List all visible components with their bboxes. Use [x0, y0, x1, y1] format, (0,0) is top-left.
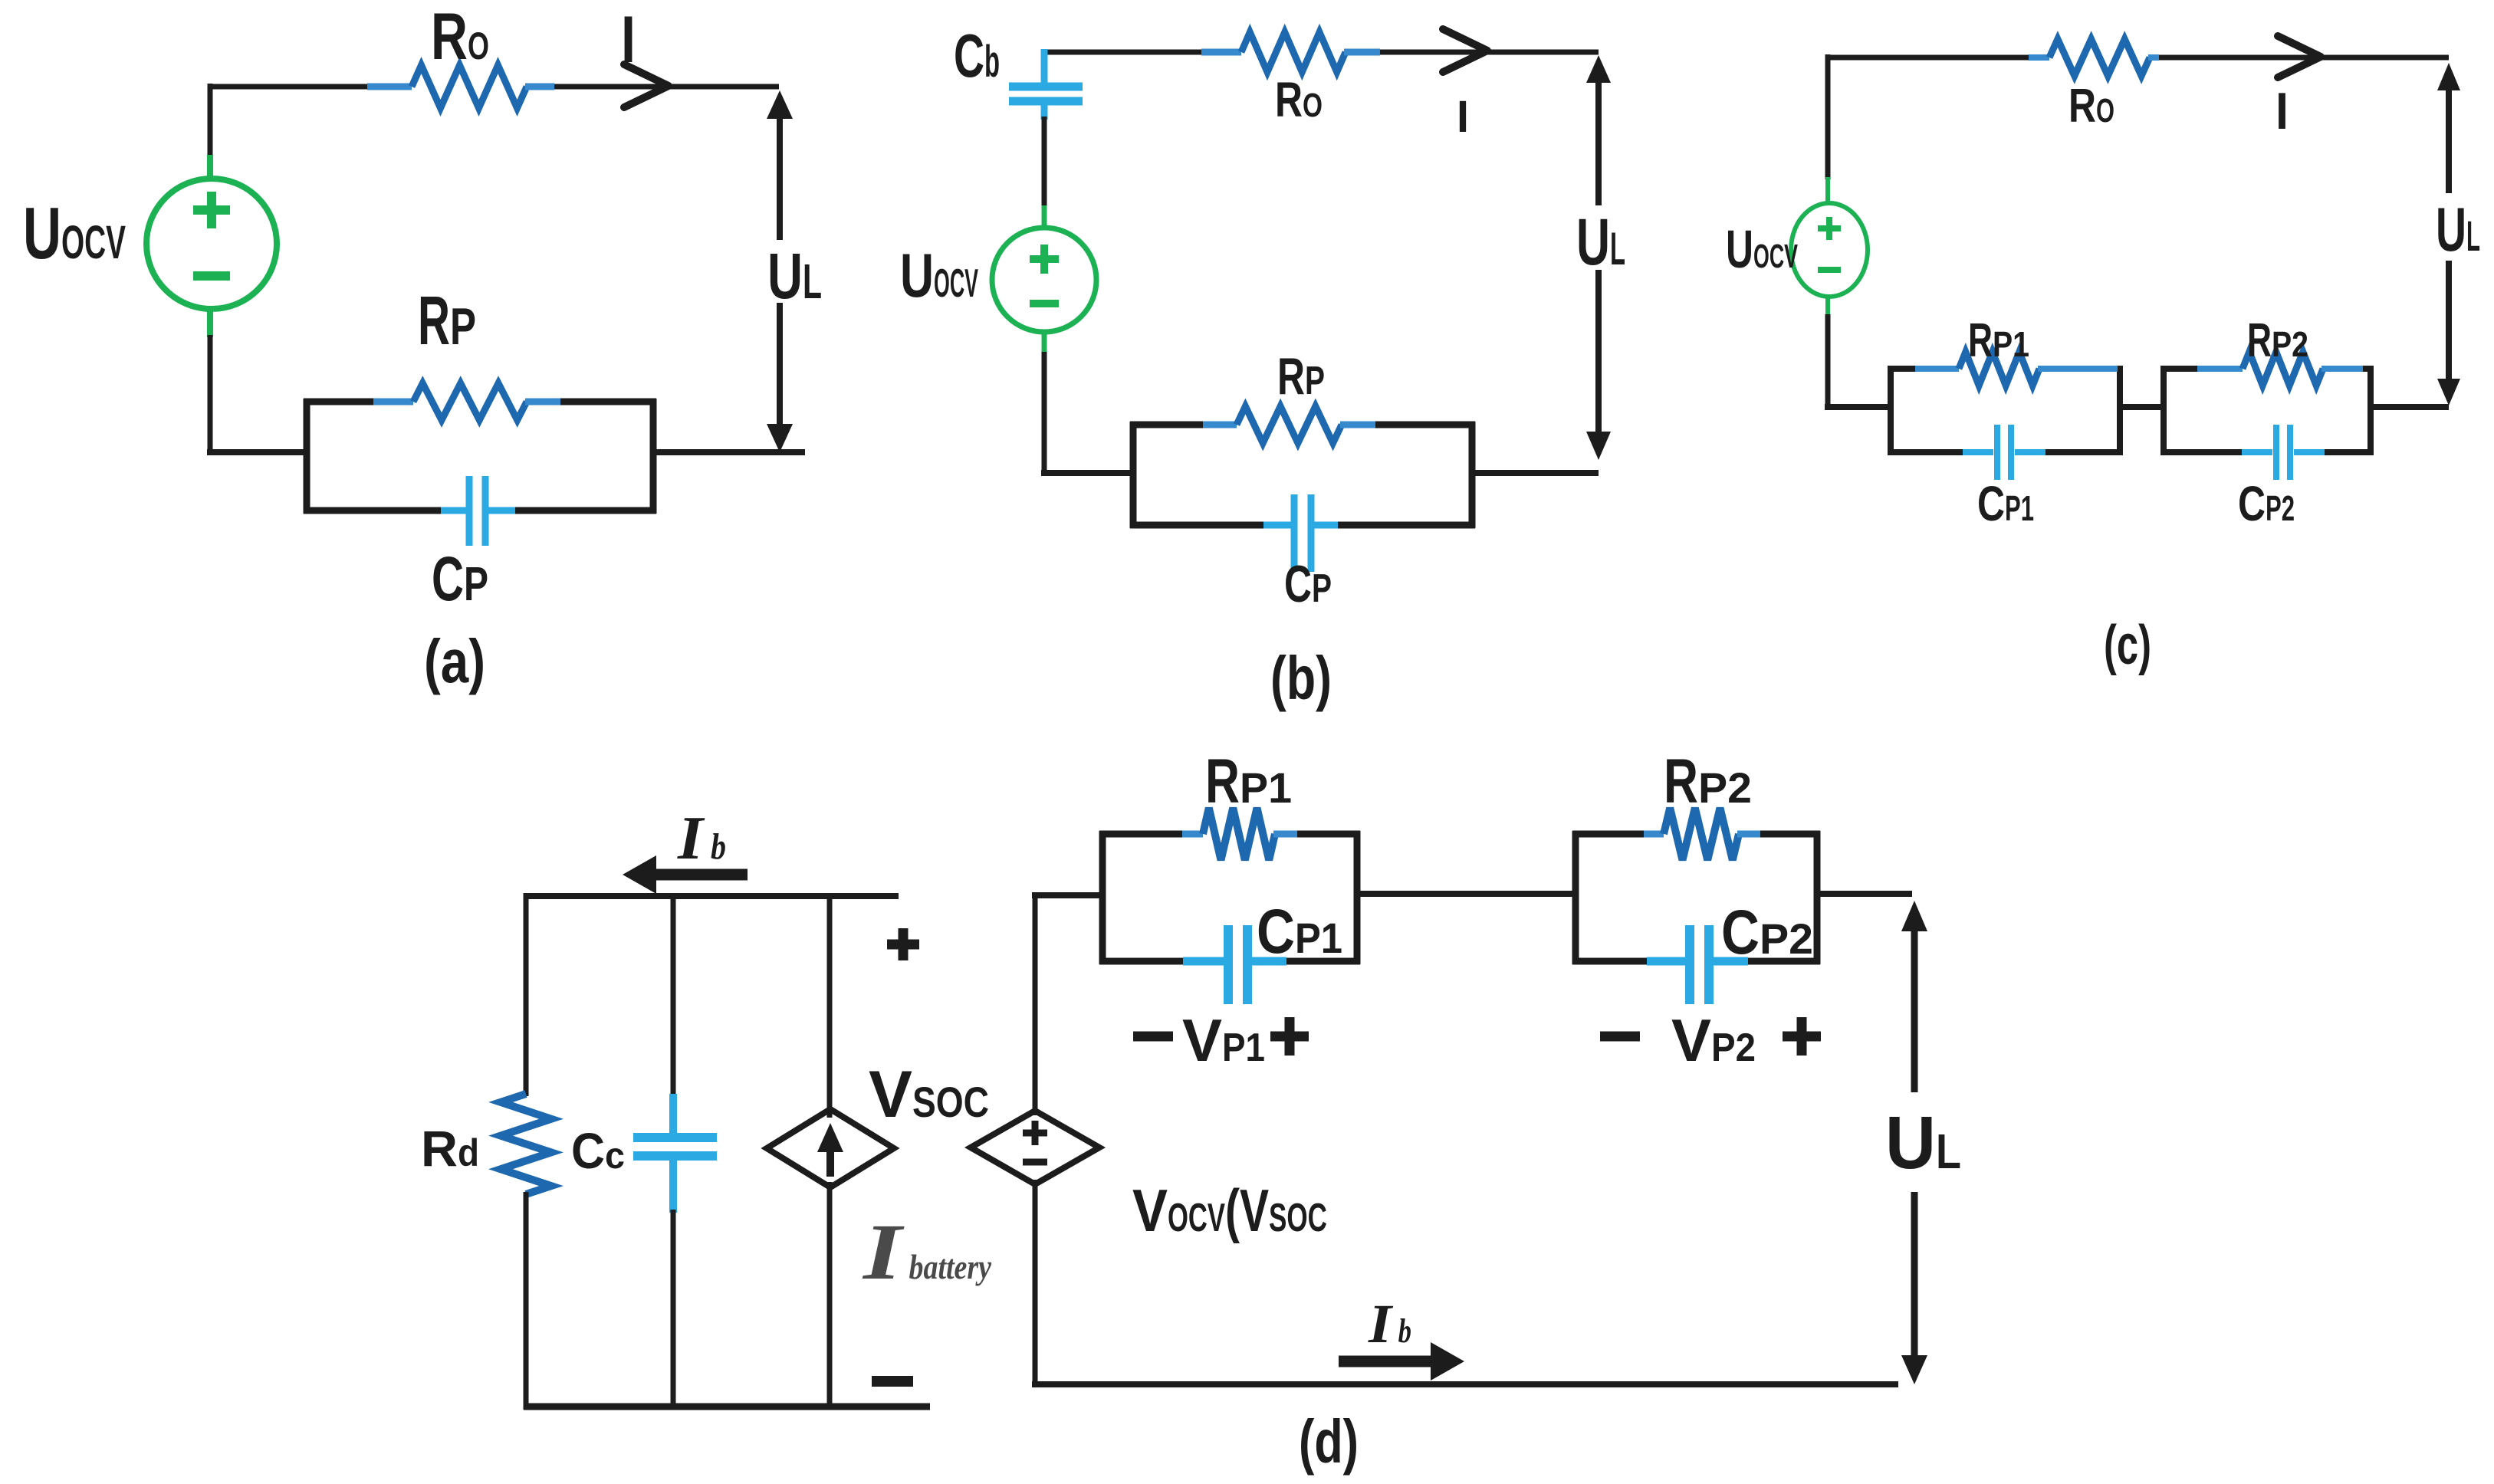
- current arrow I (c): [2278, 36, 2321, 77]
- measurement arrow UL (d): [1901, 901, 1927, 1384]
- label Rd (d): [421, 1120, 479, 1177]
- label Rp2 (d): [1664, 747, 1752, 816]
- capacitor Cp2 (d) on box2 bottom edge: [1647, 925, 1748, 1004]
- measurement arrow UL (b): [1586, 55, 1611, 460]
- svg-text:RP: RP: [1277, 347, 1325, 405]
- wire: (d) left block bottom rail: [524, 1404, 930, 1410]
- caption (b): [1270, 644, 1332, 712]
- label UL (d): [1885, 1101, 1961, 1184]
- svg-text:(d): (d): [1299, 1407, 1359, 1476]
- current arrow Ib (d, top left, pointing left): [623, 855, 748, 894]
- wire: (b) top wire: [1044, 50, 1599, 55]
- svg-text:RP1: RP1: [1205, 747, 1292, 816]
- svg-text:UOCV: UOCV: [1726, 219, 1798, 279]
- resistor Ro (b): [1201, 32, 1380, 72]
- wire: (a) top wire from source to right corner: [210, 84, 779, 90]
- capacitor Cp2 (c) on box2 bottom edge: [2242, 425, 2325, 480]
- measurement arrow UL (a): [767, 90, 793, 452]
- label Cp (a): [432, 544, 488, 614]
- svg-text:UOCV: UOCV: [900, 241, 978, 310]
- svg-text:RO: RO: [1275, 72, 1323, 127]
- label I (b): [1457, 92, 1469, 142]
- label Cp1 (c): [1977, 476, 2034, 531]
- label -Vp2+ (d): [1600, 1006, 1821, 1074]
- svg-text:I: I: [1457, 92, 1469, 142]
- label Cp1 (d): [1257, 897, 1342, 967]
- wire: (a) bottom wire from box to UL arrow: [650, 449, 805, 455]
- label Ib (d top): [677, 805, 726, 872]
- svg-text:I: I: [2275, 82, 2289, 140]
- label Cp2 (d): [1721, 898, 1813, 967]
- label Rp (b): [1277, 347, 1325, 405]
- label UL (b): [1576, 205, 1625, 279]
- voltage source Uocv (c): [1791, 177, 1868, 317]
- label Ro (c): [2068, 80, 2114, 133]
- label Vsoc (d): [869, 1058, 989, 1131]
- wire: (d) from source top to box1: [1032, 895, 1106, 1115]
- svg-text:CP2: CP2: [1721, 898, 1813, 967]
- voltage source Uocv (a): [146, 155, 277, 337]
- svg-text:CP1: CP1: [1257, 897, 1342, 967]
- svg-text:CP2: CP2: [2238, 476, 2295, 531]
- svg-text:I b: I b: [677, 805, 726, 872]
- label Cp (b): [1284, 555, 1332, 613]
- wire: (d) left block top rail: [526, 893, 899, 899]
- caption (c): [2104, 615, 2151, 676]
- svg-text:RP1: RP1: [1968, 314, 2029, 367]
- label Vocv(Vsoc (d): [1132, 1177, 1327, 1244]
- svg-text:RP2: RP2: [1664, 747, 1752, 816]
- resistor Ro (a): [367, 65, 554, 108]
- svg-text:VP1: VP1: [1182, 1006, 1265, 1074]
- voltage source Uocv (b): [992, 205, 1096, 354]
- label Cb (b): [954, 21, 1000, 90]
- RC box 1 (c): frame: [1888, 366, 2123, 455]
- label -Vp1+ (d): [1133, 1006, 1309, 1074]
- label Uocv (c): [1726, 219, 1798, 279]
- svg-text:UL: UL: [1885, 1101, 1961, 1184]
- resistor Rp1 (d) on box1 top edge: [1182, 808, 1297, 860]
- label I battery (d): [862, 1208, 992, 1296]
- RC box 2 (d): frame: [1572, 831, 1820, 964]
- svg-text:(b): (b): [1270, 644, 1332, 712]
- wire: (b) right bottom wire from box to UL arrow: [1469, 470, 1599, 476]
- svg-text:UL: UL: [767, 240, 822, 312]
- resistor Rp (b) on box top edge: [1203, 406, 1375, 443]
- svg-text:RO: RO: [2068, 80, 2114, 133]
- svg-text:UL: UL: [2436, 195, 2480, 264]
- svg-text:VOCV(VSOC: VOCV(VSOC: [1132, 1177, 1327, 1244]
- svg-text:I: I: [621, 3, 636, 77]
- label I (a): [621, 3, 636, 77]
- svg-text:RP2: RP2: [2247, 314, 2308, 367]
- capacitor Cb (b) on left vertical: [1009, 49, 1083, 120]
- svg-text:(c): (c): [2104, 615, 2151, 676]
- wire: (a) left vertical upper: [208, 84, 213, 157]
- svg-text:CP1: CP1: [1977, 476, 2034, 531]
- RC parallel box (b): frame: [1130, 422, 1475, 528]
- label + (d left block): [887, 928, 919, 960]
- label Cc (d): [571, 1122, 625, 1179]
- resistor Ro (c): [2029, 39, 2159, 76]
- RC box 1 (d): frame: [1099, 831, 1360, 964]
- svg-text:VP2: VP2: [1671, 1006, 1756, 1074]
- resistor Rd (d): left branch: [501, 893, 551, 1410]
- svg-text:(a): (a): [424, 627, 485, 695]
- capacitor Cp1 (c) on box1 bottom edge: [1963, 425, 2045, 480]
- label Ib (d bottom): [1368, 1293, 1411, 1354]
- resistor Rp1 (c) on box1 top edge: [1915, 352, 2118, 386]
- svg-text:VSOC: VSOC: [869, 1058, 989, 1131]
- svg-text:RP: RP: [418, 283, 476, 360]
- label Rp1 (d): [1205, 747, 1292, 816]
- wire: (d) source bottom leg and bottom rail: [1032, 1180, 1898, 1387]
- label UL (a): [767, 240, 822, 312]
- label Ro (b): [1275, 72, 1323, 127]
- label Ro (a): [431, 0, 489, 74]
- capacitor Cp (b) on box bottom edge: [1263, 494, 1338, 572]
- svg-text:UOCV: UOCV: [23, 192, 126, 274]
- capacitor Cc (d): middle branch: [633, 893, 717, 1410]
- label Cp2 (c): [2238, 476, 2295, 531]
- capacitor Cp (a) on box bottom edge: [441, 476, 515, 546]
- resistor Rp2 (d) on box2 top edge: [1644, 808, 1760, 860]
- svg-text:CP: CP: [1284, 555, 1332, 613]
- wire: (b) left vertical above source: [1042, 117, 1047, 207]
- svg-text:CP: CP: [432, 544, 488, 614]
- label Rp (a): [418, 283, 476, 360]
- wire: (b) left vertical lower + bottom wire to RC box: [1041, 352, 1136, 476]
- label I (c): [2275, 82, 2289, 140]
- wire: (d) box2 to UL arrow: [1814, 891, 1912, 897]
- svg-text:UL: UL: [1576, 205, 1625, 279]
- wire: (a) left vertical lower + bottom wire to RC box: [207, 335, 310, 455]
- wire: (d) link box1 to box2: [1354, 891, 1579, 897]
- caption (a): [424, 627, 485, 695]
- label Rp2 (c): [2247, 314, 2308, 367]
- dependent current source Vsoc (d): right branch: [767, 893, 894, 1410]
- wire: (c) link between box1 and box2: [2117, 404, 2167, 410]
- current arrow I (a): [624, 64, 669, 107]
- label Uocv (b): [900, 241, 978, 310]
- wire: (c) left vertical lower + bottom wire to box1: [1825, 314, 1894, 410]
- wire: (c) top wire: [1828, 55, 2449, 61]
- measurement arrow UL (c): [2437, 63, 2460, 405]
- svg-text:I battery: I battery: [862, 1208, 992, 1296]
- svg-text:Rd: Rd: [421, 1120, 479, 1177]
- RC box 2 (c): frame: [2160, 366, 2374, 455]
- capacitor Cp1 (d) on box1 bottom edge: [1183, 925, 1286, 1004]
- resistor Rp2 (c) on box2 top edge: [2197, 352, 2363, 386]
- label Rp1 (c): [1968, 314, 2029, 367]
- label - (d left block bottom): [872, 1376, 913, 1387]
- wire: (c) left vertical above source: [1825, 54, 1831, 179]
- wire: (c) right bottom wire to UL arrow: [2367, 404, 2449, 410]
- svg-text:Cc: Cc: [571, 1122, 625, 1179]
- RC parallel box (a): frame: [304, 399, 656, 514]
- dependent voltage source Vocv(Vsoc) (d): [971, 1111, 1099, 1184]
- resistor Rp (a) on box top edge: [373, 383, 560, 420]
- svg-text:Cb: Cb: [954, 21, 1000, 90]
- current arrow Ib (d bottom, pointing right): [1339, 1342, 1464, 1381]
- caption (d): [1299, 1407, 1359, 1476]
- label Uocv (a): [23, 192, 126, 274]
- svg-text:RO: RO: [431, 0, 489, 74]
- svg-text:I b: I b: [1368, 1293, 1411, 1354]
- current arrow I (b): [1443, 29, 1487, 72]
- label UL (c): [2436, 195, 2480, 264]
